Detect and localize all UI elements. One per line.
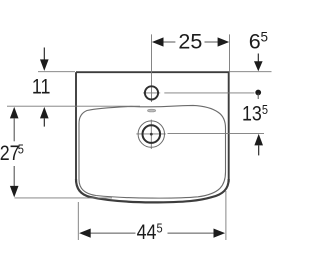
dim 6-5 text (249, 29, 261, 53)
dim 13-5 dot marker (255, 90, 261, 96)
drain centerline vertical (150, 120, 152, 149)
inner bowl outline (79, 105, 226, 198)
overflow slot (148, 109, 156, 112)
drain leader line to right (168, 133, 265, 135)
faucet hole circle (145, 86, 158, 99)
dim 44-5 line right segment (168, 232, 216, 234)
dim 27-5 line upper (13, 118, 15, 141)
dim 27-5 arrow down (bottom) (10, 186, 19, 198)
dim 44-5 text (137, 221, 157, 245)
svg-text:44: 44 (137, 221, 157, 245)
svg-text:13: 13 (242, 102, 262, 126)
svg-text:5: 5 (18, 141, 24, 156)
svg-text:6: 6 (249, 29, 261, 53)
drain center dot (150, 133, 153, 136)
top edge extension line right (230, 71, 272, 73)
dim 27-5 arrow up (top) (10, 107, 19, 119)
dim 25 text (178, 29, 202, 53)
dim 25 arrow left (152, 37, 164, 46)
dim 25 line left segment (163, 41, 175, 43)
svg-text:5: 5 (262, 102, 268, 117)
dim 44-5 arrow right (214, 229, 226, 238)
drain outer circle (138, 121, 164, 147)
faucet leader line to right (164, 92, 254, 94)
dim 44-5 line left segment (91, 232, 136, 234)
dim 11 arrow up (bottom) (40, 107, 49, 119)
svg-text:27: 27 (0, 142, 20, 166)
svg-text:11: 11 (32, 75, 51, 99)
dim 27-5 text (0, 142, 20, 166)
faucet hole centerline horizontal tick (143, 92, 160, 94)
dim 44-5 arrow left (79, 229, 91, 238)
dim 27-5 line lower (13, 166, 15, 187)
dim 25 line right segment (205, 41, 219, 43)
dim 13-5 text (242, 102, 262, 126)
dim 44-5 extension line right (225, 191, 227, 240)
faucet hole centerline vertical (151, 34, 153, 102)
dim 25 arrow right (218, 37, 230, 46)
drain centerline horizontal (136, 133, 166, 135)
svg-text:25: 25 (178, 29, 202, 53)
dim 6-5 arrow down (257, 54, 259, 63)
dim 44-5 extension line left (77, 202, 79, 240)
top edge extension line left (38, 71, 75, 73)
drain inner circle (143, 125, 161, 143)
basin outer outline (76, 72, 229, 182)
dim 13-5 arrow up (254, 134, 263, 146)
basin outer front (bottom) edge (76, 179, 229, 202)
bowl top edge extension line left (7, 105, 140, 107)
dim 25 extension line right (229, 34, 231, 71)
dim 11 arrow down (top) (43, 48, 45, 61)
svg-text:5: 5 (157, 221, 163, 236)
dim 11 text (32, 75, 51, 99)
svg-text:5: 5 (261, 30, 269, 45)
front edge extension line left (15, 197, 113, 199)
